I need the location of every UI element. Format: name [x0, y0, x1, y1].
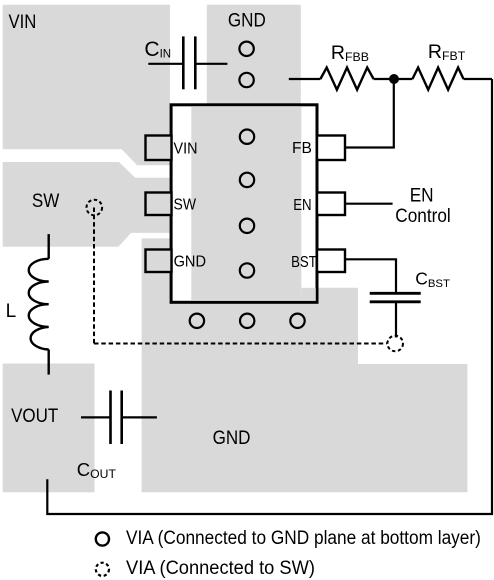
op IC U1 body	[171, 105, 317, 302]
svg-text:VOUT: VOUT	[11, 406, 59, 427]
svg-text:Control: Control	[395, 206, 450, 227]
via 2 inside IC	[240, 173, 254, 187]
legend via dashed symbol	[96, 563, 109, 576]
svg-text:GND: GND	[213, 428, 251, 449]
resistor RFBB	[320, 68, 373, 90]
capacitor CIN left lead	[148, 63, 183, 65]
svg-text:SW: SW	[32, 191, 59, 212]
svg-text:BST: BST	[291, 254, 317, 271]
junction node dot	[389, 74, 399, 84]
pin BST (box)	[317, 250, 345, 273]
wire RFBB to junction	[374, 78, 413, 80]
pin FB (box)	[317, 136, 345, 161]
wire RFBT to right edge	[464, 78, 493, 80]
via SW left (dashed)	[87, 200, 103, 216]
GND strip through IC	[191, 106, 301, 300]
via 3 inside IC	[240, 219, 254, 233]
via 1 inside IC	[240, 130, 254, 144]
wire VOUT feedback loop	[47, 79, 492, 514]
svg-text:VIA (Connected to GND plane at: VIA (Connected to GND plane at bottom la…	[126, 528, 481, 549]
wire BST pin to CBST	[345, 259, 396, 293]
GND patch inside IC bottom right	[301, 288, 316, 301]
capacitor CBST plates	[370, 292, 421, 295]
svg-text:FB: FB	[292, 140, 312, 157]
inductor L lead bottom	[48, 350, 50, 375]
svg-text:GND: GND	[228, 11, 266, 32]
VIN copper plane	[3, 5, 170, 166]
via A in top GND strip	[239, 42, 253, 56]
capacitor COUT left lead	[81, 416, 111, 418]
via 4 inside IC	[240, 263, 254, 277]
GND top copper strip	[207, 5, 301, 106]
inductor L coil	[29, 259, 49, 350]
via 5 below IC	[190, 314, 204, 328]
capacitor CIN right lead	[195, 63, 227, 65]
inductor L lead top	[48, 234, 50, 259]
via 7 below IC	[290, 314, 304, 328]
legend via solid symbol	[96, 532, 109, 545]
via 6 below IC	[240, 314, 254, 328]
GND bottom copper plane	[142, 238, 468, 492]
resistor RFBT	[412, 68, 463, 90]
pin VIN (box)	[146, 136, 172, 161]
wire dashed SW net vertical	[93, 208, 95, 344]
VOUT copper plane	[3, 364, 95, 493]
wire CBST to via	[395, 302, 397, 338]
pin SW (box)	[146, 193, 172, 216]
svg-text:SW: SW	[174, 197, 197, 214]
capacitor COUT right lead	[122, 416, 157, 418]
SW copper plane	[3, 162, 170, 247]
capacitor CIN plates	[182, 36, 185, 89]
svg-text:EN: EN	[293, 197, 311, 214]
svg-text:VIA (Connected to SW): VIA (Connected to SW)	[126, 558, 315, 579]
svg-text:EN: EN	[410, 186, 434, 207]
wire EN pin	[345, 203, 393, 205]
wire FB pin to junction	[345, 79, 394, 148]
svg-text:VIN: VIN	[174, 140, 198, 157]
via SW at CBST (dashed)	[387, 336, 403, 352]
svg-text:VIN: VIN	[9, 12, 37, 33]
wire from GND strip to RFBB	[289, 78, 321, 80]
pin EN (box)	[317, 193, 345, 216]
capacitor COUT plates	[109, 391, 112, 445]
svg-text:GND: GND	[174, 254, 206, 271]
svg-text:L: L	[6, 301, 17, 322]
pin GND (box)	[146, 250, 172, 273]
via B in top GND strip	[239, 73, 253, 87]
wire dashed SW net horizontal	[94, 343, 387, 345]
